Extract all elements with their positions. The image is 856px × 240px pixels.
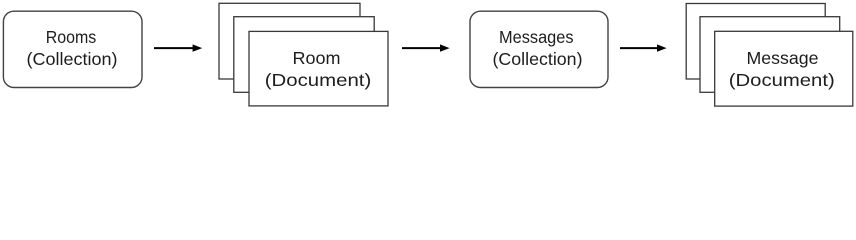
stack Room documents: front card Room (Document) (249, 31, 388, 106)
svg-text:Message: Message (747, 48, 819, 68)
stack Room documents: back card (219, 3, 360, 79)
stack Message documents: back card (686, 4, 825, 80)
svg-text:(Collection): (Collection) (27, 49, 118, 69)
arrow 3 (620, 44, 667, 51)
arrow 1 (154, 44, 202, 51)
stack Message documents: middle card (700, 17, 840, 93)
box Rooms (Collection) (3, 11, 142, 87)
arrow 2 (402, 44, 450, 51)
svg-text:Room: Room (293, 48, 341, 68)
stack Message documents: front card Message (Document) (715, 31, 853, 106)
svg-text:(Document): (Document) (729, 70, 835, 90)
svg-text:(Collection): (Collection) (493, 49, 583, 69)
stack Room documents: middle card (234, 17, 374, 93)
svg-text:Rooms: Rooms (46, 27, 97, 47)
box Messages (Collection) (470, 11, 608, 87)
svg-text:(Document): (Document) (265, 70, 372, 90)
svg-text:Messages: Messages (499, 27, 574, 47)
